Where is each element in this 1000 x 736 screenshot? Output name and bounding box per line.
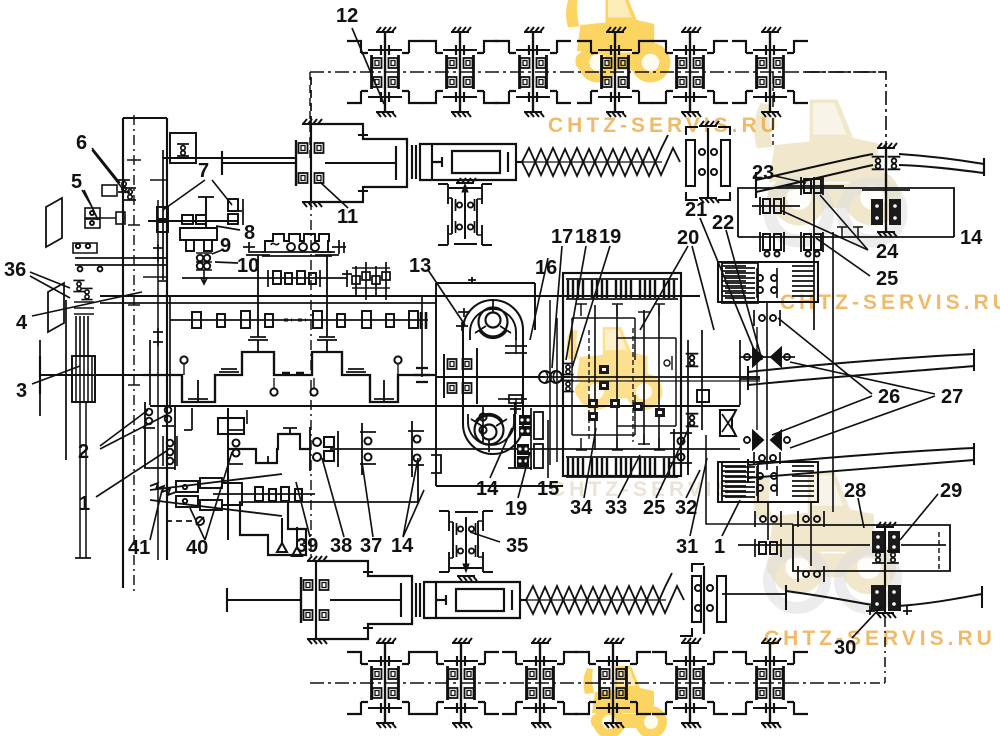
svg-text:10: 10 <box>237 255 259 277</box>
svg-text:30: 30 <box>834 637 856 659</box>
turbine wheel bottom <box>475 416 504 445</box>
svg-text:14: 14 <box>476 478 499 500</box>
pump wheel top <box>479 308 508 337</box>
flywheel marks <box>414 368 430 382</box>
svg-text:37: 37 <box>360 535 382 557</box>
right bracket <box>431 455 441 473</box>
svg-text:CHTZ-SERVIS.RU: CHTZ-SERVIS.RU <box>764 627 996 650</box>
wing bottom <box>748 448 974 478</box>
svg-text:40: 40 <box>186 537 208 559</box>
top outline <box>163 157 296 159</box>
logo center-right (bright) <box>566 327 662 410</box>
logo bottom center (bright) <box>583 666 667 736</box>
oil pump cluster <box>352 262 390 300</box>
bracket with circles <box>73 243 97 253</box>
main axis (double) <box>545 376 760 378</box>
fan parallelograms <box>46 198 62 247</box>
14/19 small unit on top <box>509 395 522 403</box>
svg-text:16: 16 <box>535 257 557 279</box>
axle shaft row y=494 <box>213 493 315 495</box>
svg-text:14: 14 <box>391 535 414 557</box>
pumps row (item 5) <box>85 208 100 218</box>
wing curves: rise to shaft then fall to right <box>756 154 984 180</box>
housing box <box>436 283 563 486</box>
gear cluster 36 <box>73 280 84 291</box>
bevel mesh bottom + gears <box>744 431 790 449</box>
svg-text:6: 6 <box>76 132 87 154</box>
bevel mesh top <box>739 348 795 366</box>
right friction packs <box>722 263 758 502</box>
svg-text:25: 25 <box>643 497 665 519</box>
svg-text:31: 31 <box>676 536 698 558</box>
striped block (3) <box>72 356 95 402</box>
vertical shaft down <box>813 177 815 330</box>
svg-text:28: 28 <box>844 480 866 502</box>
shelf lines <box>75 258 167 265</box>
tappet (camshaft) row at y=320 <box>170 319 428 321</box>
main axis left <box>40 374 143 376</box>
svg-text:9: 9 <box>220 235 231 257</box>
svg-text:3: 3 <box>16 380 27 402</box>
tall tower <box>123 118 167 588</box>
four lines down <box>76 316 88 356</box>
gear cluster right of TC <box>670 423 692 475</box>
crankshaft profile <box>143 352 436 402</box>
gear 23 on shaft <box>783 185 844 187</box>
internal small gears (dark) <box>588 365 665 421</box>
svg-text:7: 7 <box>198 160 209 182</box>
svg-text:1: 1 <box>714 536 725 558</box>
gear cluster 38/39 <box>310 427 338 471</box>
svg-text:5: 5 <box>71 171 82 193</box>
track bogie units <box>347 27 423 117</box>
lower protrusion <box>240 502 306 555</box>
gear 9/10 <box>197 255 203 261</box>
gear 14 pair <box>408 421 424 477</box>
small tees left of loop <box>456 308 470 331</box>
svg-text:21: 21 <box>685 199 707 221</box>
main bearing pads <box>219 369 239 372</box>
verticals <box>766 302 768 470</box>
gear 37 <box>360 423 376 475</box>
housing box bottom tees <box>837 227 863 237</box>
idler shaft <box>876 522 896 527</box>
housing box <box>738 188 954 237</box>
svg-text:CHTZ-SERVIS.RU: CHTZ-SERVIS.RU <box>548 114 780 137</box>
internal verticals <box>594 305 596 450</box>
svg-text:29: 29 <box>940 480 962 502</box>
svg-text:20: 20 <box>677 227 699 249</box>
con-rod stems + tees <box>248 337 268 352</box>
pedestal <box>180 228 217 240</box>
svg-text:13: 13 <box>409 255 431 277</box>
stator shelves <box>505 346 527 406</box>
svg-text:36: 36 <box>4 259 26 281</box>
bottom friction pack <box>568 458 674 476</box>
svg-text:26: 26 <box>878 386 900 408</box>
svg-text:41: 41 <box>128 537 150 559</box>
svg-text:8: 8 <box>244 222 255 244</box>
svg-text:22: 22 <box>712 212 734 234</box>
piston pin circles <box>180 356 187 363</box>
small gears row under pump <box>182 277 348 279</box>
vertical dashed at left of row <box>309 72 311 160</box>
svg-text:19: 19 <box>505 498 527 520</box>
housing box <box>793 525 950 571</box>
hats <box>218 418 244 434</box>
logo right upper (pale) <box>754 100 900 226</box>
svg-text:14: 14 <box>960 227 983 249</box>
tees top/bottom <box>576 304 665 322</box>
top friction pack <box>568 280 674 298</box>
small H unit below cylinder <box>438 184 492 245</box>
axis dash-dot <box>310 71 886 73</box>
cylinders above <box>246 252 270 337</box>
steering clutch drum top <box>718 262 818 302</box>
svg-text:35: 35 <box>506 535 528 557</box>
svg-text:15: 15 <box>537 478 559 500</box>
box at top right of tower <box>170 133 196 163</box>
svg-text:2: 2 <box>78 441 89 463</box>
svg-text:38: 38 <box>330 535 352 557</box>
svg-text:32: 32 <box>675 497 697 519</box>
nested drum outlines <box>572 318 635 435</box>
svg-text:18: 18 <box>575 226 597 248</box>
svg-text:4: 4 <box>16 312 28 334</box>
svg-text:25: 25 <box>876 268 898 290</box>
gear box item 2 <box>145 402 175 468</box>
wire to idler <box>805 72 886 150</box>
axle + wing lines (dip at shaft) <box>722 593 786 595</box>
svg-text:33: 33 <box>605 497 627 519</box>
bearing unit after spring <box>686 121 730 203</box>
steering clutch drum bottom <box>718 462 818 502</box>
svg-text:24: 24 <box>876 241 899 263</box>
gears item 6 <box>118 180 130 192</box>
svg-text:34: 34 <box>570 497 593 519</box>
funnel bevel <box>720 410 736 436</box>
long wing to right <box>748 354 974 385</box>
svg-text:1: 1 <box>79 493 90 515</box>
mirrored mini-crank profile on mid shaft <box>228 434 310 463</box>
svg-text:23: 23 <box>752 162 774 184</box>
svg-text:12: 12 <box>336 5 358 27</box>
shaft through <box>436 376 545 378</box>
logo bottom-right (pale) <box>754 472 896 594</box>
outer loop (stadium) <box>463 300 523 454</box>
logo top center (bright) <box>566 0 671 83</box>
svg-text:17: 17 <box>551 226 573 248</box>
gear pair under drum <box>754 310 780 326</box>
svg-text:27: 27 <box>941 386 963 408</box>
vertical shaft x=228 <box>227 408 229 540</box>
gear pairs under drum <box>755 511 781 527</box>
svg-text:19: 19 <box>599 226 621 248</box>
tower shaft gear marks <box>153 244 163 262</box>
gear 24 cluster <box>752 205 800 207</box>
svg-text:11: 11 <box>337 206 358 228</box>
svg-text:39: 39 <box>296 535 318 557</box>
14 gear circles left <box>482 406 484 442</box>
input side small gears (17/18/19) <box>562 363 573 374</box>
